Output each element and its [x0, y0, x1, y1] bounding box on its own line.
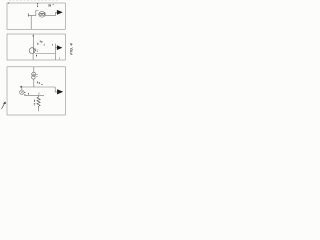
ground stub (box1 wire to box edge): [30, 15, 32, 29]
bus wire (box3 horizontal): [21, 86, 55, 88]
wire (box1 input, horizontal): [28, 11, 38, 16]
wire (box2 riser vertical): [54, 44, 56, 60]
node dot (bus left end): [20, 86, 22, 88]
wire (box3 vertical from top edge): [33, 67, 35, 72]
transistor Q2 (circle component box2): [29, 48, 35, 54]
pin ticks (box2 component right side): [35, 49, 38, 52]
wire (stub bus to source circle): [21, 87, 23, 90]
leader arrow (reference pointer bottom-left): [2, 102, 6, 109]
corner speck (box1 top-left): [8, 2, 9, 4]
tick (box2 bottom edge jog): [59, 57, 61, 60]
wire (box2 vertical from top edge): [33, 34, 35, 48]
source S3 (circle with cross, box3 left): [20, 90, 25, 95]
value label (left of resistor): [34, 100, 35, 106]
pin tick (box2 riser top-right): [51, 44, 54, 46]
wire (box1 output to riser): [45, 12, 57, 15]
resistor R3 (vertical zigzag): [37, 96, 40, 108]
wire (bus jog down to arrow): [55, 87, 57, 92]
node dot (box2 top junction): [33, 35, 34, 36]
pin tick (box1 component output): [44, 12, 46, 14]
diode pair D3 (stacked circles on box3 wire): [32, 72, 36, 79]
node label 416 (rotated numeral right of box2 wire): [37, 41, 42, 45]
junction dot near top-right: [53, 4, 54, 5]
arrow A1 (box1 output arrow): [57, 10, 63, 15]
pin tick (box2 riser top-left): [43, 44, 46, 46]
stage box 2 (middle rectangle): [7, 34, 65, 60]
faint dotted rule at top of sheet: [9, 0, 58, 2]
pin ticks (right of box3 circles): [36, 74, 39, 77]
ground stub (box2 wire to bottom edge): [32, 54, 34, 60]
wire (box3 vertical to bus): [33, 79, 35, 87]
tick (above lower rail): [27, 93, 30, 95]
junction curl (resistor top joint): [38, 93, 40, 95]
pin marks (right of source circle): [24, 92, 25, 95]
wire (box2 output to riser): [35, 53, 55, 55]
svg-text:FIG. 4: FIG. 4: [69, 43, 74, 55]
lamp L1 (circle pair component box1): [39, 12, 45, 18]
arrow A3 (box3 output arrow): [57, 89, 63, 94]
arrow A2 (box2 output arrow): [57, 45, 63, 50]
terminal bar T1 (box1 input tick): [27, 13, 29, 16]
node label 410 (rotated numeral above box1 wire): [37, 3, 38, 7]
wire (box2 arrow feed): [55, 47, 57, 49]
node label 422 (rotated numeral above bus): [37, 82, 42, 85]
stage box 1 (top dashed rectangle): [7, 3, 65, 29]
rail wire (box3 lower horizontal): [24, 94, 44, 96]
tick (right of box2 stub): [36, 55, 37, 57]
wire (resistor tail): [37, 108, 39, 111]
node label 412 (rotated numeral top-right of box1): [49, 4, 51, 6]
stage box 3 (bottom rectangle): [7, 67, 65, 115]
